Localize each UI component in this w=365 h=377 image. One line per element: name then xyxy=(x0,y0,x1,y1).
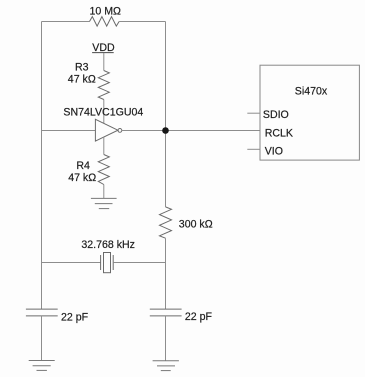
svg-text:R4: R4 xyxy=(76,160,90,172)
capacitor C right 22pF top plate xyxy=(150,308,182,310)
node VDD underline xyxy=(92,52,114,54)
svg-text:47 kΩ: 47 kΩ xyxy=(68,74,96,86)
svg-text:32.768 kHz: 32.768 kHz xyxy=(81,239,135,251)
wire top-right segment xyxy=(119,21,165,23)
crystal Y1 body xyxy=(104,253,111,273)
svg-text:RCLK: RCLK xyxy=(265,128,293,140)
pin stub SDIO xyxy=(247,112,260,114)
pin stub VIO xyxy=(247,148,260,150)
svg-text:Si470x: Si470x xyxy=(295,85,328,97)
wire right vertical lower xyxy=(165,238,167,309)
svg-text:300 kΩ: 300 kΩ xyxy=(179,218,213,230)
wire right vertical upper xyxy=(165,22,167,207)
wire R4 to ground xyxy=(103,185,105,199)
wire left vertical xyxy=(41,22,43,310)
ground bottom-left xyxy=(29,361,55,371)
crystal Y1 left plate xyxy=(100,255,102,270)
svg-text:SDIO: SDIO xyxy=(263,109,289,121)
wire right cap to ground xyxy=(165,316,167,361)
svg-text:47 kΩ: 47 kΩ xyxy=(68,172,96,184)
wire top-left segment xyxy=(42,21,90,23)
wire left cap to ground xyxy=(41,316,43,361)
wire crystal right xyxy=(113,262,165,264)
wire crystal left xyxy=(42,262,101,264)
svg-text:10 MΩ: 10 MΩ xyxy=(90,6,122,18)
ground under R4 xyxy=(91,198,117,208)
capacitor C left 22pF top plate xyxy=(26,308,58,310)
svg-text:SN74LVC1GU04: SN74LVC1GU04 xyxy=(63,106,143,118)
resistor R 10 Mohm xyxy=(90,17,120,27)
wire VDD to R3 xyxy=(103,53,105,71)
resistor 300k xyxy=(160,207,172,238)
crystal Y1 right plate xyxy=(112,255,114,270)
capacitor C right 22pF bottom plate xyxy=(150,315,182,317)
svg-text:22 pF: 22 pF xyxy=(61,311,89,323)
resistor R4 47k xyxy=(98,155,109,185)
resistor R3 47k xyxy=(98,71,109,100)
capacitor C left 22pF bottom plate xyxy=(26,315,58,317)
ground bottom-right xyxy=(153,361,179,371)
junction dot xyxy=(162,127,169,134)
wire inverter output to RCLK xyxy=(122,130,260,132)
wire inverter input xyxy=(42,130,96,132)
svg-text:VIO: VIO xyxy=(265,146,283,158)
svg-text:22 pF: 22 pF xyxy=(185,311,213,323)
op-amp U1 inverter triangle xyxy=(95,119,118,141)
wire R3 to inverter top xyxy=(103,100,105,124)
wire inverter bottom to R4 xyxy=(103,137,105,155)
svg-text:R3: R3 xyxy=(75,61,89,73)
IC Si470x box xyxy=(260,65,359,160)
inverter output bubble xyxy=(118,129,122,133)
